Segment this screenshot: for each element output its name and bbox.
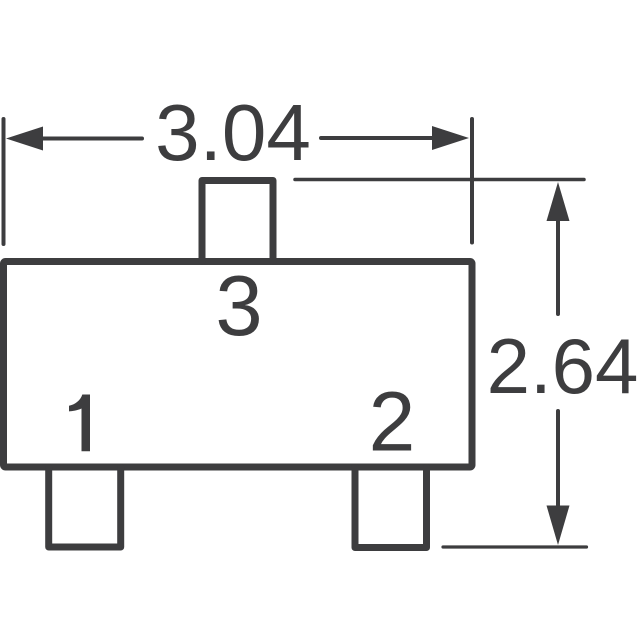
pin 1 lead (bottom-left tab) — [49, 467, 121, 547]
dimension line lower shaft (2.64) — [556, 411, 560, 507]
svg-text:2: 2 — [369, 375, 416, 469]
extension line left (width dim) — [2, 119, 6, 244]
extension line top (height dim) — [295, 178, 584, 182]
svg-text:2.64: 2.64 — [487, 322, 639, 410]
pin 2 lead (bottom-right tab) — [355, 467, 427, 548]
dimension line right shaft (3.04) — [321, 136, 435, 140]
arrowhead up (2.64) — [547, 182, 570, 221]
extension line right (width dim) — [470, 119, 474, 243]
dimension line left shaft (3.04) — [40, 137, 142, 141]
pin label 1 — [69, 395, 90, 452]
dimension line upper shaft (2.64) — [556, 218, 560, 314]
pin 3 lead (top tab) — [202, 181, 273, 262]
arrowhead left (3.04) — [6, 127, 43, 151]
svg-text:3: 3 — [215, 259, 262, 354]
arrowhead right (3.04) — [432, 126, 469, 150]
package body outline — [4, 262, 473, 468]
svg-text:3.04: 3.04 — [155, 88, 311, 177]
extension line bottom (height dim) — [443, 545, 587, 548]
arrowhead down (2.64) — [547, 506, 570, 546]
